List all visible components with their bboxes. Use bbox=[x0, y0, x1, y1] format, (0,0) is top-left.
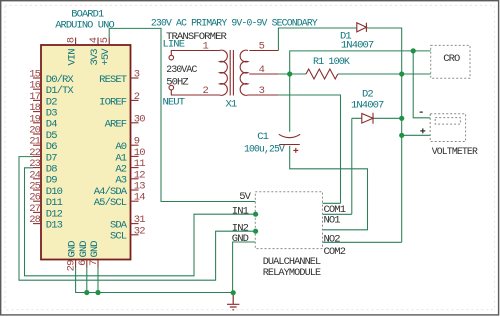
svg-text:26: 26 bbox=[29, 192, 40, 204]
svg-text:14: 14 bbox=[134, 192, 145, 204]
svg-text:GND: GND bbox=[67, 241, 79, 258]
svg-text:30: 30 bbox=[134, 113, 145, 125]
svg-text:GND: GND bbox=[78, 241, 90, 258]
svg-text:D1/TX: D1/TX bbox=[46, 85, 75, 97]
svg-text:D4: D4 bbox=[46, 119, 57, 131]
svg-text:7: 7 bbox=[88, 260, 100, 266]
svg-text:IOREF: IOREF bbox=[99, 96, 127, 108]
svg-text:RESET: RESET bbox=[99, 74, 127, 86]
svg-text:CRO: CRO bbox=[443, 53, 460, 65]
svg-text:SDA: SDA bbox=[110, 219, 128, 231]
svg-text:NEUT: NEUT bbox=[163, 96, 185, 108]
svg-text:D6: D6 bbox=[46, 141, 57, 153]
svg-text:25: 25 bbox=[29, 181, 40, 193]
svg-text:3: 3 bbox=[134, 69, 140, 81]
svg-text:5: 5 bbox=[259, 40, 265, 52]
svg-text:D0/RX: D0/RX bbox=[46, 74, 75, 86]
svg-text:A4/SDA: A4/SDA bbox=[94, 186, 128, 198]
svg-text:D7: D7 bbox=[46, 152, 57, 164]
svg-text:A2: A2 bbox=[115, 163, 126, 175]
svg-text:R1 100K: R1 100K bbox=[313, 56, 351, 68]
svg-text:D3: D3 bbox=[46, 107, 57, 119]
svg-text:16: 16 bbox=[29, 80, 40, 92]
svg-text:8: 8 bbox=[66, 37, 78, 43]
svg-text:3V3: 3V3 bbox=[89, 49, 101, 66]
svg-text:NO1: NO1 bbox=[324, 215, 341, 227]
svg-text:1N4007: 1N4007 bbox=[351, 99, 384, 111]
svg-text:VIN: VIN bbox=[67, 49, 79, 66]
svg-text:4: 4 bbox=[259, 64, 265, 76]
svg-text:SCL: SCL bbox=[110, 231, 127, 243]
svg-text:VOLTMETER: VOLTMETER bbox=[432, 146, 479, 158]
svg-text:5: 5 bbox=[99, 37, 111, 43]
svg-text:28: 28 bbox=[29, 214, 40, 226]
svg-text:15: 15 bbox=[29, 69, 40, 81]
svg-text:27: 27 bbox=[29, 203, 40, 215]
svg-text:IN1: IN1 bbox=[232, 205, 249, 217]
svg-text:9: 9 bbox=[134, 136, 140, 148]
svg-text:4: 4 bbox=[88, 37, 100, 43]
svg-text:BOARD1: BOARD1 bbox=[71, 8, 104, 20]
svg-text:100u,25V: 100u,25V bbox=[244, 143, 285, 155]
svg-text:D10: D10 bbox=[46, 186, 63, 198]
svg-text:13: 13 bbox=[134, 181, 145, 193]
svg-text:D13: D13 bbox=[46, 219, 63, 231]
svg-text:ARDUINO UNO: ARDUINO UNO bbox=[55, 20, 114, 32]
svg-text:1N4007: 1N4007 bbox=[341, 40, 374, 52]
svg-text:2: 2 bbox=[134, 91, 140, 103]
svg-text:X1: X1 bbox=[226, 99, 237, 111]
svg-text:10: 10 bbox=[134, 147, 145, 159]
svg-text:18: 18 bbox=[29, 102, 40, 114]
svg-text:A3: A3 bbox=[115, 175, 126, 187]
svg-text:20: 20 bbox=[29, 125, 40, 137]
svg-text:GND: GND bbox=[89, 241, 101, 258]
svg-text:12: 12 bbox=[134, 169, 145, 181]
svg-text:+5V: +5V bbox=[100, 48, 112, 66]
svg-text:2: 2 bbox=[203, 85, 209, 97]
svg-text:COM2: COM2 bbox=[324, 246, 346, 258]
svg-text:A0: A0 bbox=[115, 141, 126, 153]
svg-text:C1: C1 bbox=[257, 131, 268, 143]
svg-text:24: 24 bbox=[29, 169, 40, 181]
svg-text:3: 3 bbox=[259, 85, 265, 97]
svg-text:A1: A1 bbox=[115, 152, 126, 164]
svg-text:LINE: LINE bbox=[163, 39, 185, 51]
svg-text:21: 21 bbox=[29, 136, 40, 148]
svg-text:230VAC: 230VAC bbox=[166, 64, 197, 76]
svg-text:D2: D2 bbox=[46, 96, 57, 108]
svg-text:1: 1 bbox=[203, 40, 209, 52]
svg-text:19: 19 bbox=[29, 113, 40, 125]
svg-text:D8: D8 bbox=[46, 163, 57, 175]
svg-text:32: 32 bbox=[134, 225, 145, 237]
svg-text:D5: D5 bbox=[46, 130, 57, 142]
svg-text:31: 31 bbox=[134, 214, 145, 226]
svg-text:D12: D12 bbox=[46, 208, 63, 220]
svg-text:D11: D11 bbox=[46, 197, 63, 209]
svg-text:11: 11 bbox=[134, 158, 145, 170]
svg-text:NO2: NO2 bbox=[324, 234, 341, 246]
svg-text:6: 6 bbox=[77, 260, 89, 266]
svg-text:AREF: AREF bbox=[105, 119, 127, 131]
svg-text:GND: GND bbox=[232, 233, 249, 245]
svg-text:A5/SCL: A5/SCL bbox=[94, 197, 127, 209]
svg-text:D9: D9 bbox=[46, 175, 57, 187]
svg-text:RELAYMODULE: RELAYMODULE bbox=[263, 267, 321, 279]
svg-text:17: 17 bbox=[29, 91, 40, 103]
svg-text:5V: 5V bbox=[239, 191, 251, 203]
